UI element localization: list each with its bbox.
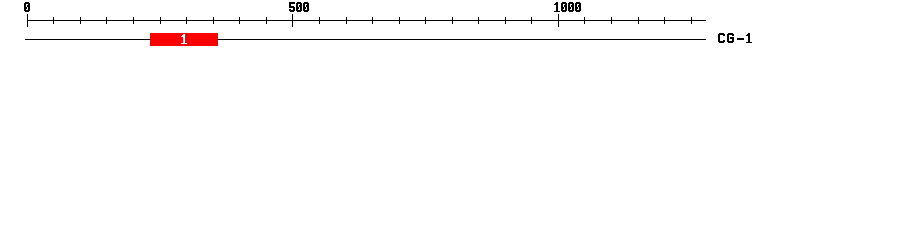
minor tick 250 [160, 17, 161, 24]
major tick 500 [292, 14, 293, 27]
minor tick 1200 [664, 17, 665, 24]
minor tick 50 [53, 17, 54, 24]
minor tick 750 [425, 17, 426, 24]
minor tick 1250 [691, 17, 692, 24]
ruler label 1000 [554, 2, 581, 12]
background [0, 0, 900, 58]
minor tick 550 [319, 17, 320, 24]
minor tick 400 [239, 17, 240, 24]
minor tick 450 [266, 17, 267, 24]
minor tick 850 [478, 17, 479, 24]
major tick 0 [27, 14, 28, 27]
minor tick 1150 [638, 17, 639, 24]
minor tick 650 [372, 17, 373, 24]
ruler axis line [27, 20, 706, 21]
minor tick 600 [346, 17, 347, 24]
minor tick 950 [531, 17, 532, 24]
minor tick 800 [452, 17, 453, 24]
minor tick 1050 [584, 17, 585, 24]
track center line [25, 39, 706, 40]
minor tick 350 [213, 17, 214, 24]
track name CG-1 [718, 33, 752, 43]
feature box 1 (red) [150, 33, 218, 46]
ruler label 0 [24, 2, 30, 12]
minor tick 700 [399, 17, 400, 24]
feature label 1 (white) [181, 34, 187, 44]
minor tick 200 [133, 17, 134, 24]
minor tick 900 [505, 17, 506, 24]
ruler label 500 [289, 2, 309, 12]
minor tick 300 [186, 17, 187, 24]
minor tick 150 [106, 17, 107, 24]
major tick 1000 [558, 14, 559, 27]
minor tick 1100 [611, 17, 612, 24]
minor tick 100 [80, 17, 81, 24]
